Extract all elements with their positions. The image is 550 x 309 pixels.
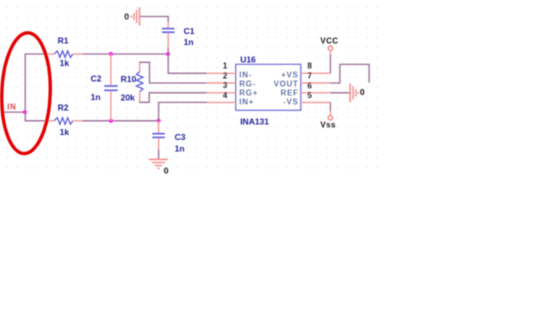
wire pin5 to Vss	[329, 102, 331, 111]
wire REF to right ground	[330, 92, 349, 94]
svg-text:Vss: Vss	[320, 121, 336, 130]
junction dot bottom of C2	[109, 119, 113, 123]
wire top ground to C1	[140, 17, 168, 23]
power Vss symbol	[328, 111, 332, 120]
wire C1 riser to pin1	[168, 49, 207, 74]
svg-text:1n: 1n	[175, 144, 185, 154]
svg-text:R1: R1	[58, 35, 69, 45]
svg-text:0: 0	[360, 87, 365, 97]
svg-text:IN-: IN-	[239, 70, 252, 79]
svg-text:6: 6	[307, 81, 312, 90]
pin 8 stub	[301, 72, 331, 74]
svg-text:-VS: -VS	[283, 97, 298, 106]
wire top row middle segment	[83, 53, 169, 55]
resistor R1	[44, 51, 82, 58]
highlight ellipse around IN	[0, 32, 52, 154]
ground 0 (bottom, at C3)	[149, 159, 168, 168]
svg-text:VOUT: VOUT	[274, 80, 299, 89]
junction dot at C3 node	[157, 119, 161, 123]
pin 3 stub	[207, 92, 236, 94]
pin 6 stub	[301, 92, 331, 94]
junction dot top of C1 riser	[166, 52, 170, 56]
svg-text:C3: C3	[175, 132, 186, 142]
ground 0 (right, at REF)	[350, 83, 358, 102]
svg-text:C1: C1	[184, 26, 195, 36]
svg-text:1k: 1k	[60, 58, 70, 68]
svg-text:REF: REF	[280, 89, 298, 98]
resistor R10	[136, 62, 143, 102]
svg-text:0: 0	[164, 165, 169, 175]
wire bottom row right segment	[83, 120, 159, 122]
svg-text:U16: U16	[240, 55, 256, 65]
svg-text:VCC: VCC	[320, 37, 338, 46]
svg-text:20k: 20k	[121, 92, 135, 102]
svg-text:7: 7	[307, 71, 312, 80]
svg-text:0: 0	[124, 11, 129, 21]
op-amp U16 INA131 body	[236, 64, 301, 110]
svg-text:RG-: RG-	[239, 80, 256, 89]
grid dot background	[4, 5, 382, 171]
svg-text:INA131: INA131	[240, 116, 269, 126]
svg-text:8: 8	[307, 61, 312, 70]
wire bottom row left segment	[25, 120, 45, 122]
svg-text:R10: R10	[121, 74, 137, 84]
wire R10 bottom staple to pin3	[139, 93, 207, 103]
svg-text:IN+: IN+	[239, 97, 254, 106]
capacitor C3	[152, 121, 165, 150]
svg-text:3: 3	[223, 81, 228, 90]
wire IN stub	[1, 111, 25, 113]
wire R10 top staple to pin2	[139, 62, 207, 83]
ground 0 (top, at C1)	[131, 7, 139, 25]
svg-text:4: 4	[223, 91, 228, 100]
wire C3 to bottom ground	[158, 150, 160, 159]
svg-text:RG+: RG+	[239, 89, 258, 98]
pin 2 stub	[207, 82, 236, 84]
junction dot top of C2	[109, 52, 113, 56]
resistor R2	[44, 118, 82, 125]
svg-text:5: 5	[307, 91, 312, 100]
svg-text:1: 1	[223, 61, 228, 70]
power VCC symbol	[328, 46, 332, 55]
svg-text:1k: 1k	[60, 127, 70, 137]
svg-text:C2: C2	[91, 73, 102, 83]
wire VCC to pin8	[329, 55, 331, 74]
wire VOUT bridge	[330, 64, 369, 83]
pin 5 stub	[301, 101, 331, 103]
svg-text:+VS: +VS	[281, 70, 298, 79]
svg-text:IN: IN	[7, 102, 16, 111]
svg-text:R2: R2	[58, 103, 69, 113]
svg-text:1n: 1n	[184, 37, 194, 47]
capacitor C1	[162, 22, 175, 49]
capacitor C2	[104, 54, 118, 121]
pin 7 stub	[301, 82, 331, 84]
pin 4 stub	[207, 101, 236, 103]
junction dot at IN node	[23, 110, 27, 114]
svg-text:1n: 1n	[91, 92, 101, 102]
pin 1 stub	[207, 72, 236, 74]
wire pin4 riser	[159, 102, 207, 120]
wire left vertical	[24, 54, 26, 121]
wire top row left segment	[25, 53, 45, 55]
svg-text:2: 2	[223, 71, 228, 80]
